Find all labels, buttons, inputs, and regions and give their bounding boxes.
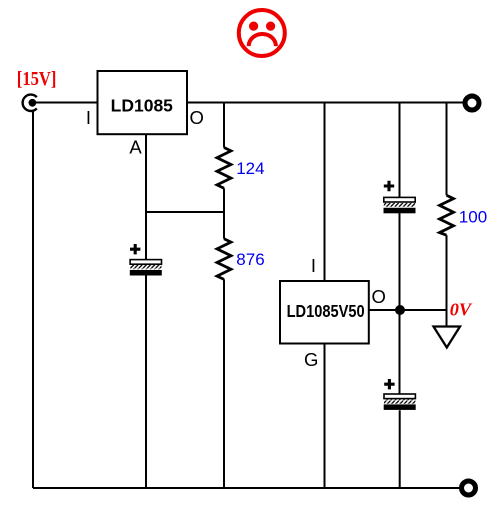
svg-text:A: A (129, 136, 142, 157)
svg-text:[15V]: [15V] (17, 69, 57, 90)
svg-text:I: I (311, 255, 316, 276)
svg-text:124: 124 (236, 159, 264, 178)
svg-text:I: I (86, 107, 91, 128)
svg-text:O: O (372, 286, 386, 307)
svg-text:G: G (304, 349, 318, 370)
svg-text:100: 100 (459, 207, 487, 226)
svg-text:876: 876 (236, 250, 264, 269)
svg-text:0V: 0V (450, 300, 473, 320)
svg-text:O: O (190, 107, 204, 128)
svg-text:LD1085V50: LD1085V50 (287, 301, 365, 321)
svg-text:LD1085: LD1085 (111, 96, 174, 116)
